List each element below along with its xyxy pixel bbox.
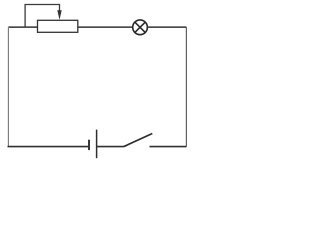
- battery B1 short plate (negative): [88, 140, 90, 150]
- wire right vertical: [185, 27, 187, 146]
- wire wiper branch: [25, 5, 59, 28]
- wire lamp to top-right corner: [147, 26, 186, 28]
- wire bottom-right horizontal: [150, 146, 187, 148]
- wire left vertical: [7, 27, 9, 146]
- wire battery to switch: [97, 146, 124, 148]
- wiper arrowhead: [57, 10, 61, 20]
- resistor R1 (rheostat body): [38, 20, 78, 32]
- battery B1 long plate (positive): [96, 130, 98, 159]
- wire bottom-left horizontal: [8, 146, 89, 148]
- wire resistor to lamp: [78, 26, 133, 28]
- lamp L1 circle: [133, 20, 148, 35]
- lamp L1 cross: [135, 22, 145, 32]
- switch S1 blade (open): [124, 134, 153, 147]
- wire top-left horizontal: [8, 26, 38, 28]
